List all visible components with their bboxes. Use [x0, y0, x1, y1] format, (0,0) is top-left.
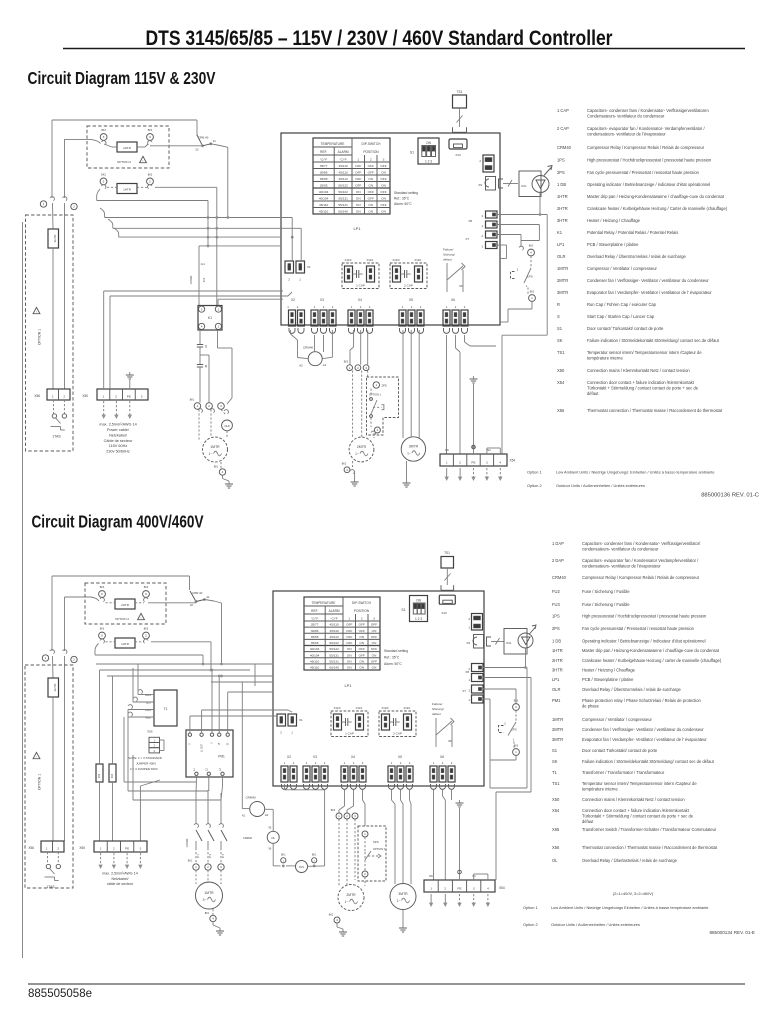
legend 115/230V: 1 CAP	[557, 108, 709, 119]
svg-text:X7: X7	[465, 237, 469, 241]
svg-text:ON: ON	[356, 210, 361, 214]
wires fuses risers	[100, 670, 113, 764]
svg-text:OFF: OFF	[359, 647, 365, 651]
capacitor connector X12 (2 CAP) 400V	[379, 706, 416, 737]
wire 1HTR left leg to bus	[97, 189, 208, 246]
option 1 thermostat enclosure	[26, 215, 74, 451]
svg-text:55/131: 55/131	[329, 653, 339, 657]
wire TS1 to board 400V	[445, 568, 451, 585]
svg-text:Heater / Heizung / Chauffage: Heater / Heizung / Chauffage	[582, 668, 636, 673]
title underline rule	[63, 48, 745, 50]
svg-text:Outdoor Units / Außeneinheiten: Outdoor Units / Außeneinheiten / Unités …	[551, 922, 640, 927]
svg-text:1: 1	[306, 761, 308, 765]
heater 3HTR 400V	[48, 678, 59, 697]
svg-text:ON: ON	[381, 197, 386, 201]
svg-text:1: 1	[351, 305, 353, 309]
svg-text:3: 3	[220, 865, 222, 869]
wire bus horizontal row4 400V	[211, 681, 273, 683]
svg-text:PCB / Steuerplatine / platine: PCB / Steuerplatine / platine	[587, 242, 639, 247]
wire bus horizontal 1	[100, 208, 292, 219]
svg-text:45/110: 45/110	[338, 171, 348, 175]
legend 400/460V: FU3	[552, 602, 630, 607]
svg-text:POSITION: POSITION	[363, 150, 379, 154]
svg-text:OLR: OLR	[224, 424, 229, 428]
legend 115/230V: X56	[557, 408, 723, 413]
svg-text:Condenser fan / Verflüssiger-: Condenser fan / Verflüssiger- Ventilator…	[587, 278, 709, 283]
svg-text:OVL: OVL	[299, 865, 305, 869]
svg-text:RED: RED	[146, 716, 152, 720]
legend 400/460V: PM1	[552, 698, 702, 709]
svg-text:5: 5	[201, 307, 203, 311]
svg-text:1: 1	[153, 739, 155, 743]
connector cups under board 400V	[282, 784, 455, 789]
svg-text:1: 1	[46, 846, 48, 850]
wire X3 pin1 down	[314, 335, 316, 352]
wire ICG drop 400V	[524, 654, 527, 669]
legend 115/230V: S	[557, 314, 655, 319]
svg-text:2T1: 2T1	[198, 853, 200, 858]
svg-text:ICG: ICG	[506, 641, 512, 645]
svg-text:2: 2	[73, 658, 75, 662]
transformer wire ORN	[128, 705, 154, 712]
capacitor connector X11/0 X11/1 (1 CAP)	[342, 258, 379, 289]
legend 400/460V: 1 DB	[552, 639, 706, 644]
svg-text:BK3: BK3	[514, 745, 519, 748]
svg-text:BK1: BK1	[312, 854, 317, 857]
legend 400/460V: OL	[552, 858, 678, 863]
svg-text:Door contact Türkontakt/ conta: Door contact Türkontakt/ contact de port…	[582, 748, 658, 753]
svg-text:FU3: FU3	[112, 773, 114, 778]
svg-text:Connection door contact + fail: Connection door contact + failure indica…	[587, 380, 695, 385]
wire X8 pin1 to right bus 400V	[483, 678, 531, 881]
wire board to X50 line 2	[110, 292, 292, 389]
label LP1 400V board	[344, 683, 352, 688]
svg-text:2: 2	[459, 460, 461, 464]
svg-text:X5: X5	[398, 755, 402, 759]
svg-text:BK3: BK3	[529, 245, 534, 248]
svg-text:3: 3	[486, 460, 488, 464]
high pressurestat 1PS	[511, 256, 533, 294]
svg-text:2: 2	[63, 394, 65, 398]
svg-text:OFF: OFF	[355, 184, 361, 188]
svg-text:POSITION: POSITION	[354, 609, 370, 613]
transformer switch X55	[147, 730, 164, 753]
svg-text:BK2: BK2	[329, 914, 334, 917]
legend 400/460V: 3HTR	[552, 668, 636, 673]
fan speed switch SPS option 1 400V	[358, 826, 386, 886]
svg-text:Option 2: Option 2	[527, 483, 542, 488]
svg-text:OPTION 2: OPTION 2	[115, 617, 129, 621]
high pressurestat 1PS 400V	[499, 710, 517, 748]
svg-text:50/122: 50/122	[338, 190, 348, 194]
master drip pan heater 1HTR	[107, 184, 148, 194]
svg-text:défaut: défaut	[443, 258, 452, 262]
svg-text:L3: L3	[220, 768, 222, 771]
legend 400/460V: LP1	[552, 677, 634, 682]
svg-text:BK1: BK1	[190, 399, 195, 402]
wire bus horizontal row1 400V	[96, 663, 273, 666]
svg-text:22: 22	[190, 603, 194, 607]
svg-text:CRM40: CRM40	[190, 275, 193, 284]
svg-text:6: 6	[103, 135, 105, 139]
svg-text:BK3: BK3	[144, 628, 149, 631]
svg-text:Circuit Diagram 115V & 230V: Circuit Diagram 115V & 230V	[28, 68, 216, 88]
svg-text:2: 2	[361, 616, 363, 620]
legend 400/460V: X55	[552, 827, 717, 832]
wires PM1 bottom drops	[196, 776, 223, 801]
wire door contact S1 bus	[487, 448, 500, 454]
svg-text:PM1: PM1	[552, 698, 561, 703]
svg-text:60/140: 60/140	[338, 210, 348, 214]
svg-text:4: 4	[515, 705, 517, 709]
svg-text:DIP-SWITCH: DIP-SWITCH	[362, 142, 382, 146]
svg-text:4: 4	[222, 470, 224, 474]
svg-text:3: 3	[354, 814, 356, 818]
svg-text:35/77: 35/77	[311, 623, 319, 627]
svg-text:X5: X5	[409, 298, 413, 302]
svg-text:OPTION 2: OPTION 2	[117, 160, 131, 164]
svg-text:Ref.: 35°C: Ref.: 35°C	[394, 197, 410, 201]
svg-text:1~: 1~	[209, 452, 213, 456]
svg-text:60/140: 60/140	[329, 666, 339, 670]
wire bus horizontal 4	[199, 245, 281, 248]
svg-text:ON: ON	[356, 190, 361, 194]
svg-text:2: 2	[442, 761, 444, 765]
svg-text:S: S	[205, 345, 207, 349]
svg-text:A1: A1	[323, 363, 327, 367]
legend 115/230V: 1PS	[557, 158, 712, 163]
legend 115/230V: 3HTR	[557, 218, 641, 223]
legend 400/460V: 2 DAP	[552, 558, 699, 569]
svg-text:3HTR: 3HTR	[557, 218, 568, 223]
svg-text:55/131: 55/131	[329, 659, 339, 663]
footer document number 885505058e	[28, 988, 92, 1000]
section heading Circuit Diagram 115V and 230V	[28, 68, 216, 88]
three phase feed lines to compressor breaker	[196, 790, 221, 824]
wire X5 to evaporator fan motor 3MTR	[403, 330, 419, 438]
svg-text:ICG: ICG	[521, 184, 527, 188]
svg-text:Temperatur sensor intern/ Temp: Temperatur sensor intern/ Temperatursens…	[587, 350, 702, 355]
svg-text:Fan cycle pressurestat / Press: Fan cycle pressurestat / Pressostat / re…	[587, 170, 700, 175]
svg-text:PCB / Steuerplatine / platine: PCB / Steuerplatine / platine	[582, 677, 634, 682]
svg-text:condensateurs- ventilateur de: condensateurs- ventilateur de l’évaporat…	[587, 132, 666, 137]
fan contact BK2-1	[344, 361, 353, 371]
svg-text:A2: A2	[265, 813, 269, 817]
svg-text:OPTION 1: OPTION 1	[38, 774, 42, 790]
svg-text:OFF: OFF	[380, 164, 386, 168]
legend 115/230V: X54	[557, 380, 699, 396]
svg-text:2 = 3 JUMPER 460V: 2 = 3 JUMPER 460V	[130, 767, 158, 771]
wire X4 to fan contacts BK2	[350, 330, 368, 365]
svg-text:Capacitors- evaporator fan /: Capacitors- evaporator fan / Kondensator…	[582, 558, 699, 563]
svg-text:BK3: BK3	[101, 174, 106, 177]
svg-text:95: 95	[269, 827, 272, 830]
svg-text:Connection mains / Klemmkontak: Connection mains / Klemmkontakt Netz / c…	[582, 797, 685, 802]
svg-text:PE: PE	[457, 886, 461, 890]
svg-text:BK2: BK2	[342, 463, 347, 466]
svg-text:2: 2	[377, 428, 379, 432]
svg-text:ON: ON	[372, 641, 377, 645]
svg-text:Capacitors- evaporator fan /: Capacitors- evaporator fan / Kondensator…	[587, 126, 706, 131]
svg-text:1~: 1~	[355, 452, 359, 456]
fan contact BK2-2	[355, 365, 361, 371]
wire K1 pin1 down to bus right	[218, 330, 233, 404]
wires PM1 top risers	[190, 669, 292, 733]
svg-text:22: 22	[195, 148, 199, 152]
svg-text:CRM 40: CRM 40	[198, 136, 209, 140]
wire X8 pin2 to right bus 400V	[483, 668, 527, 789]
svg-text:CRM 40: CRM 40	[192, 591, 203, 595]
temperature sensor TS1	[453, 90, 467, 108]
wire board to X50 line 1	[104, 291, 283, 389]
svg-text:°C/°F: °C/°F	[311, 616, 318, 620]
svg-text:30/86: 30/86	[311, 629, 319, 633]
connector X1 400V	[277, 714, 303, 735]
svg-text:BK2: BK2	[331, 809, 336, 812]
wire thermostat leg 1	[52, 203, 55, 229]
svg-text:condensateurs- ventilateur de: condensateurs- ventilateur de l’évaporat…	[582, 564, 661, 569]
ground 3MTR	[403, 461, 411, 487]
svg-text:885000136 REV. 01-C: 885000136 REV. 01-C	[701, 493, 759, 499]
svg-text:A1: A1	[242, 814, 246, 818]
terminal strip X56 400V	[28, 841, 64, 852]
svg-text:2: 2	[315, 761, 317, 765]
wire bus into X1	[292, 218, 301, 262]
dip switch S1	[410, 138, 439, 164]
option 1 note 400V	[523, 905, 708, 910]
svg-text:9: 9	[149, 135, 151, 139]
capacitor connector X12/0 X12/1 (2 CAP)	[390, 258, 427, 289]
wire X7 pin2 to BK3 chain	[483, 689, 516, 703]
svg-text:3: 3	[220, 404, 222, 408]
svg-text:X50: X50	[82, 394, 88, 398]
svg-text:X54: X54	[510, 459, 516, 463]
svg-text:2: 2	[314, 860, 316, 862]
footer rule	[28, 983, 745, 985]
svg-text:3: 3	[365, 366, 367, 370]
svg-text:15: 15	[219, 742, 221, 745]
wire bus horizontal row3 400V	[107, 675, 273, 678]
legend 115/230V: 1HTR	[557, 194, 725, 199]
svg-text:DIP-SWITCH: DIP-SWITCH	[352, 601, 372, 605]
svg-text:2HTR: 2HTR	[123, 146, 132, 150]
connector X5	[399, 298, 424, 326]
svg-text:40/104: 40/104	[310, 647, 320, 651]
svg-text:X56: X56	[34, 394, 40, 398]
wire X3 pin2 down	[323, 335, 325, 352]
svg-text:OFF: OFF	[346, 623, 352, 627]
svg-text:2HTR: 2HTR	[557, 206, 568, 211]
compressor contact BK1-1	[190, 399, 203, 413]
svg-text:ON: ON	[381, 171, 386, 175]
crankcase heater 2HTR	[104, 142, 148, 152]
svg-text:2: 2	[468, 617, 470, 621]
svg-text:X56: X56	[552, 845, 560, 850]
potential relay K1	[198, 306, 222, 331]
ground above X54 PE	[470, 376, 478, 454]
svg-text:FU2: FU2	[99, 773, 101, 778]
transformer T1	[154, 690, 177, 726]
wire X7 pin1 into board	[497, 245, 507, 259]
svg-text:40/104: 40/104	[310, 653, 320, 657]
svg-text:X2: X2	[287, 755, 291, 759]
svg-text:L1: L1	[194, 768, 196, 771]
temperature sensor TS1 400V	[441, 551, 454, 568]
svg-text:X56: X56	[28, 846, 34, 850]
svg-text:câble de secteur: câble de secteur	[107, 882, 134, 886]
pressure contact BK3-1 400V	[513, 745, 520, 756]
svg-text:Transformer Switch / Transform: Transformer Switch / Transformer-Schalte…	[582, 827, 717, 832]
svg-text:CRM40: CRM40	[303, 346, 314, 350]
connector X2	[287, 298, 304, 326]
wire from X7 pin2 to chain hook	[497, 235, 523, 251]
connector X9 on board edge	[478, 177, 495, 191]
label LP1	[353, 226, 361, 231]
svg-text:ON: ON	[347, 659, 352, 663]
svg-text:CRM40: CRM40	[557, 145, 572, 150]
svg-text:Outdoor Units / Außeneinheiten: Outdoor Units / Außeneinheiten / Unités …	[556, 483, 645, 488]
svg-text:2: 2	[353, 761, 355, 765]
start capacitor S	[197, 330, 207, 360]
legend 115/230V: 2HTR	[557, 206, 728, 211]
svg-text:2: 2	[481, 234, 483, 238]
legend 400/460V: X50	[552, 797, 685, 802]
svg-text:2T2: 2T2	[210, 853, 212, 858]
svg-text:21: 21	[207, 595, 211, 599]
terminal strip X50 400V	[79, 841, 147, 852]
svg-text:Türkontakt + Störmeldung / co: Türkontakt + Störmeldung / contact conta…	[582, 814, 694, 819]
wire ICG drop junction	[539, 213, 542, 216]
svg-text:X2: X2	[291, 298, 295, 302]
svg-text:Compressor Relay / Kompressor: Compressor Relay / Kompressor Relais / R…	[582, 575, 700, 580]
drawing number 885000136	[701, 493, 759, 499]
condenser fan motor 2MTR 400V	[338, 885, 364, 911]
wire thermostat leg 2	[64, 203, 66, 389]
compressor contact BK1-4 400V and ground	[205, 909, 224, 935]
svg-text:2: 2	[455, 305, 457, 309]
svg-text:OFF: OFF	[371, 635, 377, 639]
wire TS1 to board	[457, 108, 463, 127]
svg-text:2: 2	[218, 307, 220, 311]
svg-text:max. 2,5mm²/AWG 14: max. 2,5mm²/AWG 14	[102, 872, 137, 876]
svg-text:ON: ON	[381, 184, 386, 188]
svg-text:Câble de secteur: Câble de secteur	[104, 439, 133, 443]
svg-text:Failure/: Failure/	[443, 248, 453, 252]
svg-text:High pressurestat / Hochdruckp: High pressurestat / Hochdruckpressostat …	[587, 158, 712, 163]
svg-text:OLR: OLR	[557, 254, 565, 259]
svg-text:OPTION 1: OPTION 1	[373, 847, 386, 851]
svg-text:2HTR: 2HTR	[121, 603, 130, 607]
svg-text:X11/0: X11/0	[345, 258, 352, 262]
svg-text:55/131: 55/131	[338, 197, 348, 201]
svg-text:1: 1	[446, 305, 448, 309]
svg-text:OFF: OFF	[346, 635, 352, 639]
wire 1HTR right leg to bus	[155, 187, 217, 237]
svg-text:1PS: 1PS	[552, 614, 560, 619]
svg-text:Connection mains / Klemmkontak: Connection mains / Klemmkontakt Netz / c…	[587, 368, 690, 373]
svg-text:9: 9	[145, 592, 147, 596]
door thermostat 1TAS	[51, 400, 67, 439]
indicator rects near board right edge	[479, 155, 494, 172]
legend 400/460V: S1	[552, 748, 658, 753]
svg-text:X55: X55	[147, 730, 153, 734]
svg-text:1: 1	[283, 860, 285, 862]
svg-text:2: 2	[145, 634, 147, 638]
svg-text:3: 3	[324, 761, 326, 765]
svg-text:1: 1	[391, 761, 393, 765]
svg-text:OFF: OFF	[368, 164, 374, 168]
svg-text:TEMPERATURE: TEMPERATURE	[321, 142, 345, 146]
svg-text:ON: ON	[416, 599, 421, 603]
svg-text:2: 2	[411, 305, 413, 309]
svg-text:PE: PE	[127, 394, 131, 398]
legend 400/460V: 1PS	[552, 614, 707, 619]
svg-text:SPS: SPS	[373, 840, 379, 844]
svg-text:2: 2	[57, 846, 59, 850]
svg-text:Capacitors- condenser fans / K: Capacitors- condenser fans / Kondensator…	[587, 108, 709, 113]
connector X5 400V	[388, 755, 413, 782]
svg-text:max. 2,5mm²/AWG 14: max. 2,5mm²/AWG 14	[99, 423, 136, 427]
svg-text:Connection door contact + fail: Connection door contact + failure indica…	[582, 808, 690, 813]
svg-text:1HTR: 1HTR	[121, 642, 130, 646]
svg-text:2: 2	[113, 846, 115, 850]
svg-text:45/110: 45/110	[329, 629, 339, 633]
svg-text:OFF: OFF	[359, 629, 365, 633]
terminal strip X56	[34, 389, 70, 400]
svg-text:OFF: OFF	[380, 190, 386, 194]
svg-text:Standard setting: Standard setting	[384, 649, 408, 653]
svg-text:2PS: 2PS	[557, 170, 565, 175]
svg-text:45/110: 45/110	[338, 164, 348, 168]
svg-text:6: 6	[101, 592, 103, 596]
svg-text:CRM40: CRM40	[246, 796, 257, 800]
svg-text:35/95: 35/95	[311, 635, 319, 639]
svg-text:L1 OUT: L1 OUT	[202, 743, 204, 752]
svg-text:REF.: REF.	[320, 150, 327, 154]
svg-text:1TAS: 1TAS	[46, 885, 55, 889]
svg-text:1: 1	[100, 846, 102, 850]
ground above X54 PE 400V	[456, 800, 464, 880]
svg-text:OFF: OFF	[368, 197, 374, 201]
svg-text:ON: ON	[359, 641, 364, 645]
svg-text:96: 96	[269, 848, 272, 851]
svg-text:ON: ON	[347, 666, 352, 670]
svg-text:ALARM: ALARM	[329, 609, 340, 613]
svg-text:Fan cycle pressurestat / Press: Fan cycle pressurestat / Pressostat / re…	[582, 626, 695, 631]
svg-text:X55: X55	[552, 827, 560, 832]
operating indicator ICG 400V	[504, 625, 536, 654]
wire 3HTR to X56	[52, 248, 54, 389]
connector X7 plug pair 400V	[462, 685, 483, 703]
svg-text:Crankcase heater / Kurbelgehäu: Crankcase heater / Kurbelgehäuse Heizung…	[587, 206, 728, 211]
svg-text:BK1: BK1	[281, 854, 286, 857]
svg-text:2: 2	[468, 689, 470, 693]
svg-text:condensateurs- ventilateur du: condensateurs- ventilateur du condenseur	[582, 547, 659, 552]
svg-text:2: 2	[517, 268, 519, 272]
label S1 above X54 400V	[472, 874, 476, 878]
svg-text:ON: ON	[356, 203, 361, 207]
svg-text:115V 60Hz: 115V 60Hz	[109, 444, 128, 448]
terminal strip X50	[82, 389, 148, 400]
svg-text:Heater / Heizung / Chauffage: Heater / Heizung / Chauffage	[587, 218, 641, 223]
svg-text:3HTR: 3HTR	[552, 668, 563, 673]
fuse FU3	[109, 764, 116, 782]
connector X8 plug pair 400V	[465, 664, 483, 683]
connector X1	[285, 261, 311, 282]
legend 115/230V: S1	[557, 326, 664, 331]
svg-text:ON: ON	[426, 141, 431, 145]
svg-text:OFF: OFF	[368, 190, 374, 194]
